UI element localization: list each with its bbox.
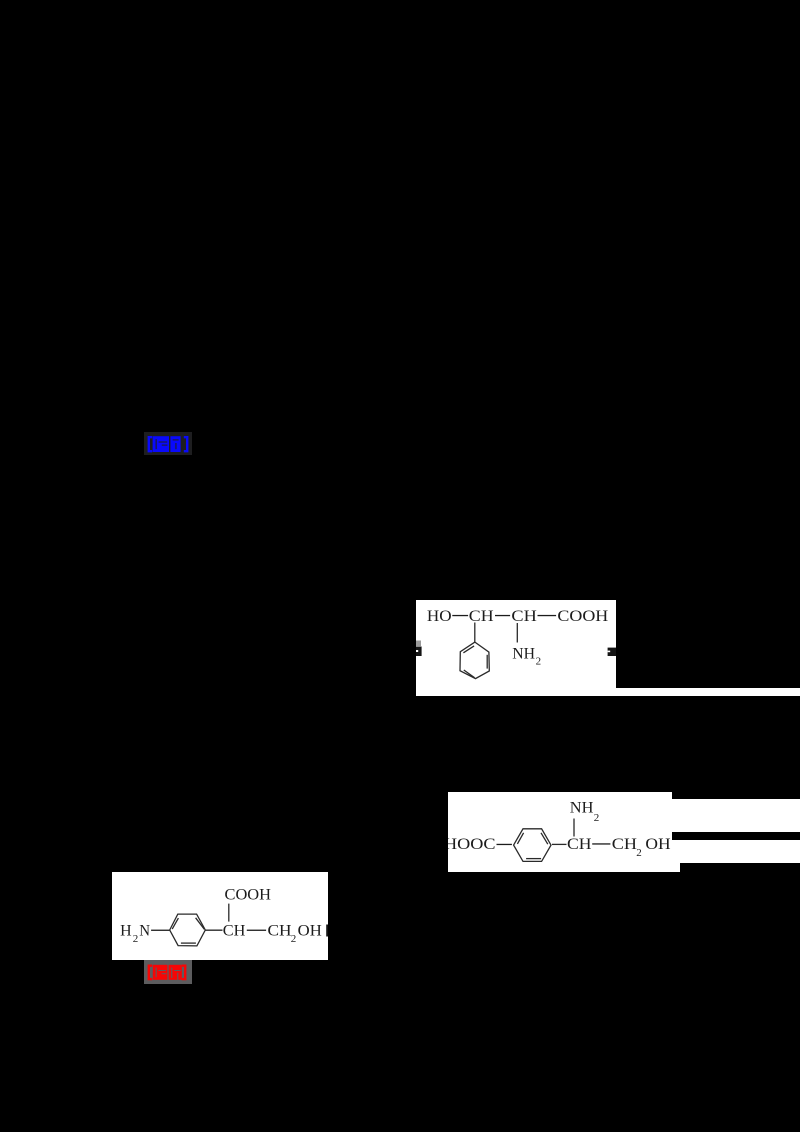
svg-text:OH: OH bbox=[298, 923, 323, 940]
bond ring-CH bbox=[552, 843, 567, 845]
benzene ring 3 inner double bonds bbox=[172, 918, 178, 929]
svg-text:2: 2 bbox=[636, 847, 642, 859]
bond HO-CH bbox=[452, 615, 468, 616]
svg-text:NH: NH bbox=[512, 645, 535, 662]
white strip 1 right of formula box 2 bbox=[672, 799, 800, 831]
bond CH2 to NH2 bbox=[516, 623, 518, 643]
svg-text:HOOC: HOOC bbox=[448, 836, 496, 853]
bond ring-CH bbox=[205, 929, 222, 931]
svg-text:CH: CH bbox=[223, 923, 246, 940]
label analysis (red) text glyphs bbox=[147, 963, 187, 982]
bond CH1 to ring bbox=[474, 623, 476, 643]
formula box 1 : structure HO-CH-CH-COOH / benzene / NH2 bbox=[416, 600, 616, 696]
formula box 3 : structure COOH / H2N-ring-CH-CH2OH bbox=[112, 872, 328, 960]
formula box 1 : white background bbox=[416, 600, 616, 696]
bond CH-CH2OH bbox=[247, 930, 266, 931]
svg-text:HO: HO bbox=[427, 608, 452, 625]
svg-text:N: N bbox=[139, 923, 150, 940]
svg-text:2: 2 bbox=[594, 812, 600, 824]
formula box 3 : white background bbox=[112, 872, 328, 960]
svg-text:CH: CH bbox=[612, 836, 638, 853]
bond CH-CH bbox=[495, 615, 510, 616]
benzene ring 2 outline bbox=[514, 829, 551, 862]
formula box 2 : white background bbox=[448, 792, 672, 872]
white band right of formula box 1 bottom bbox=[616, 688, 800, 696]
white step below strip 2 bbox=[672, 863, 680, 871]
svg-text:2: 2 bbox=[291, 933, 297, 945]
svg-text:CH: CH bbox=[469, 608, 494, 625]
svg-text:2: 2 bbox=[133, 933, 139, 945]
svg-text:2: 2 bbox=[536, 655, 542, 667]
bond CH-COOH bbox=[538, 615, 557, 616]
svg-text:H: H bbox=[120, 923, 132, 940]
bond H2N-ring bbox=[151, 930, 170, 931]
svg-text:CH: CH bbox=[511, 608, 537, 625]
benzene ring 1 outline bbox=[460, 642, 489, 679]
benzene ring 1 inner double bonds bbox=[463, 646, 474, 653]
svg-text:COOH: COOH bbox=[225, 887, 272, 904]
svg-text:COOH: COOH bbox=[557, 608, 608, 625]
clipped glyph fragment right edge (equals-like) bbox=[608, 648, 616, 656]
svg-text:NH: NH bbox=[570, 800, 594, 817]
clipped glyph fragment left edge bbox=[416, 641, 422, 657]
label example2 (blue) text glyphs bbox=[147, 435, 189, 454]
svg-text:OH: OH bbox=[645, 836, 671, 853]
bond COOH down to CH bbox=[228, 904, 230, 922]
white strip 2 right of formula box 2 bbox=[672, 840, 800, 864]
label example2 (blue) background box bbox=[144, 432, 192, 455]
clipped vertical bar fragment right edge bbox=[326, 925, 328, 937]
benzene ring 2 inner double bonds bbox=[517, 833, 523, 844]
svg-text:CH: CH bbox=[567, 836, 592, 853]
label analysis (red) background box bbox=[144, 960, 192, 984]
bond HOOC-ring bbox=[497, 844, 512, 845]
formula box 2 : structure NH2 / HOOC-ring-CH-CH2OH bbox=[448, 792, 672, 872]
bond NH2 down to CH bbox=[573, 819, 575, 837]
svg-text:CH: CH bbox=[268, 923, 292, 940]
bond CH-CH2OH bbox=[592, 843, 610, 844]
benzene ring 3 outline bbox=[170, 914, 206, 946]
